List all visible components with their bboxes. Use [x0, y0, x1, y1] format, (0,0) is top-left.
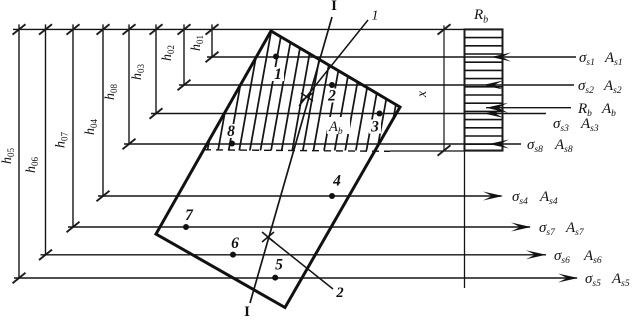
svg-text:6: 6	[231, 235, 239, 252]
level line through rebar 3	[151, 113, 546, 115]
rebar point 1	[272, 54, 284, 84]
concrete section outline (rotated rectangle)	[156, 31, 400, 308]
leader line 1	[299, 20, 368, 106]
level line through rebar 7	[68, 226, 530, 228]
level line through rebar 1	[207, 56, 576, 58]
rebar point 3	[369, 111, 383, 136]
dimension line h05	[0, 24, 26, 283]
level line through rebar 4	[98, 195, 502, 197]
level line through rebar 6	[41, 254, 547, 256]
rebar point 7	[183, 207, 194, 230]
dimension line h06	[24, 24, 52, 260]
rebar point 6	[230, 235, 239, 258]
leader line 2	[269, 238, 333, 289]
dimension line h02	[160, 24, 191, 90]
svg-text:I: I	[244, 304, 250, 317]
svg-text:x: x	[414, 91, 429, 98]
svg-text:4: 4	[332, 173, 341, 190]
dimension line h07	[54, 24, 80, 232]
dimension line h03	[130, 24, 163, 119]
dimension line h04	[83, 24, 110, 201]
level line through rebar 8	[124, 143, 521, 145]
level line through rebar 2	[179, 84, 574, 86]
svg-text:2: 2	[327, 88, 336, 105]
force arrow sigma_s6 A_s6	[526, 248, 602, 266]
label 1 top	[372, 9, 379, 24]
label 2 bottom	[335, 285, 343, 301]
rebar point 8	[225, 123, 237, 147]
force arrow sigma_s3 A_s3	[484, 109, 599, 134]
dimension line x (compressed zone depth)	[414, 24, 451, 156]
svg-text:1: 1	[372, 9, 379, 24]
force arrow sigma_s1 A_s1	[491, 50, 623, 68]
svg-text:5: 5	[275, 257, 283, 274]
force arrow sigma_s4 A_s4	[483, 189, 558, 207]
rebar point 2	[326, 82, 338, 105]
svg-text:3: 3	[370, 119, 379, 136]
force arrow sigma_s2 A_s2	[483, 78, 622, 96]
force arrow Rb Ab resultant	[486, 101, 616, 119]
level line through rebar 5	[14, 277, 577, 279]
svg-text:2: 2	[335, 285, 343, 301]
force arrow sigma_s7 A_s7	[511, 220, 585, 238]
dashed compressed-zone boundary line	[204, 150, 503, 152]
svg-text:I: I	[331, 0, 337, 14]
label Ab (compressed area)	[327, 117, 350, 137]
label I bottom	[244, 304, 250, 320]
svg-text:7: 7	[185, 207, 194, 224]
label Rb	[473, 7, 488, 26]
vertical reference line below stress block	[464, 151, 466, 289]
top reference baseline	[13, 28, 503, 30]
svg-text:1: 1	[274, 66, 282, 83]
cross mark force point	[262, 232, 274, 242]
rebar point 4	[329, 173, 341, 200]
force arrow sigma_s8 A_s8	[489, 137, 573, 155]
cross mark centroid of Ab	[301, 93, 313, 101]
label I top	[331, 0, 337, 14]
section line I-I	[250, 17, 332, 303]
dimension line h01	[189, 24, 219, 62]
dimension line h08	[103, 24, 136, 149]
stress block Rb (horizontal hatch)	[465, 29, 503, 150]
force arrow sigma_s5 A_s5	[558, 271, 630, 289]
svg-text:8: 8	[227, 123, 235, 140]
rebar point 5	[272, 257, 283, 281]
hatched compressed zone Ab	[186, 30, 409, 152]
